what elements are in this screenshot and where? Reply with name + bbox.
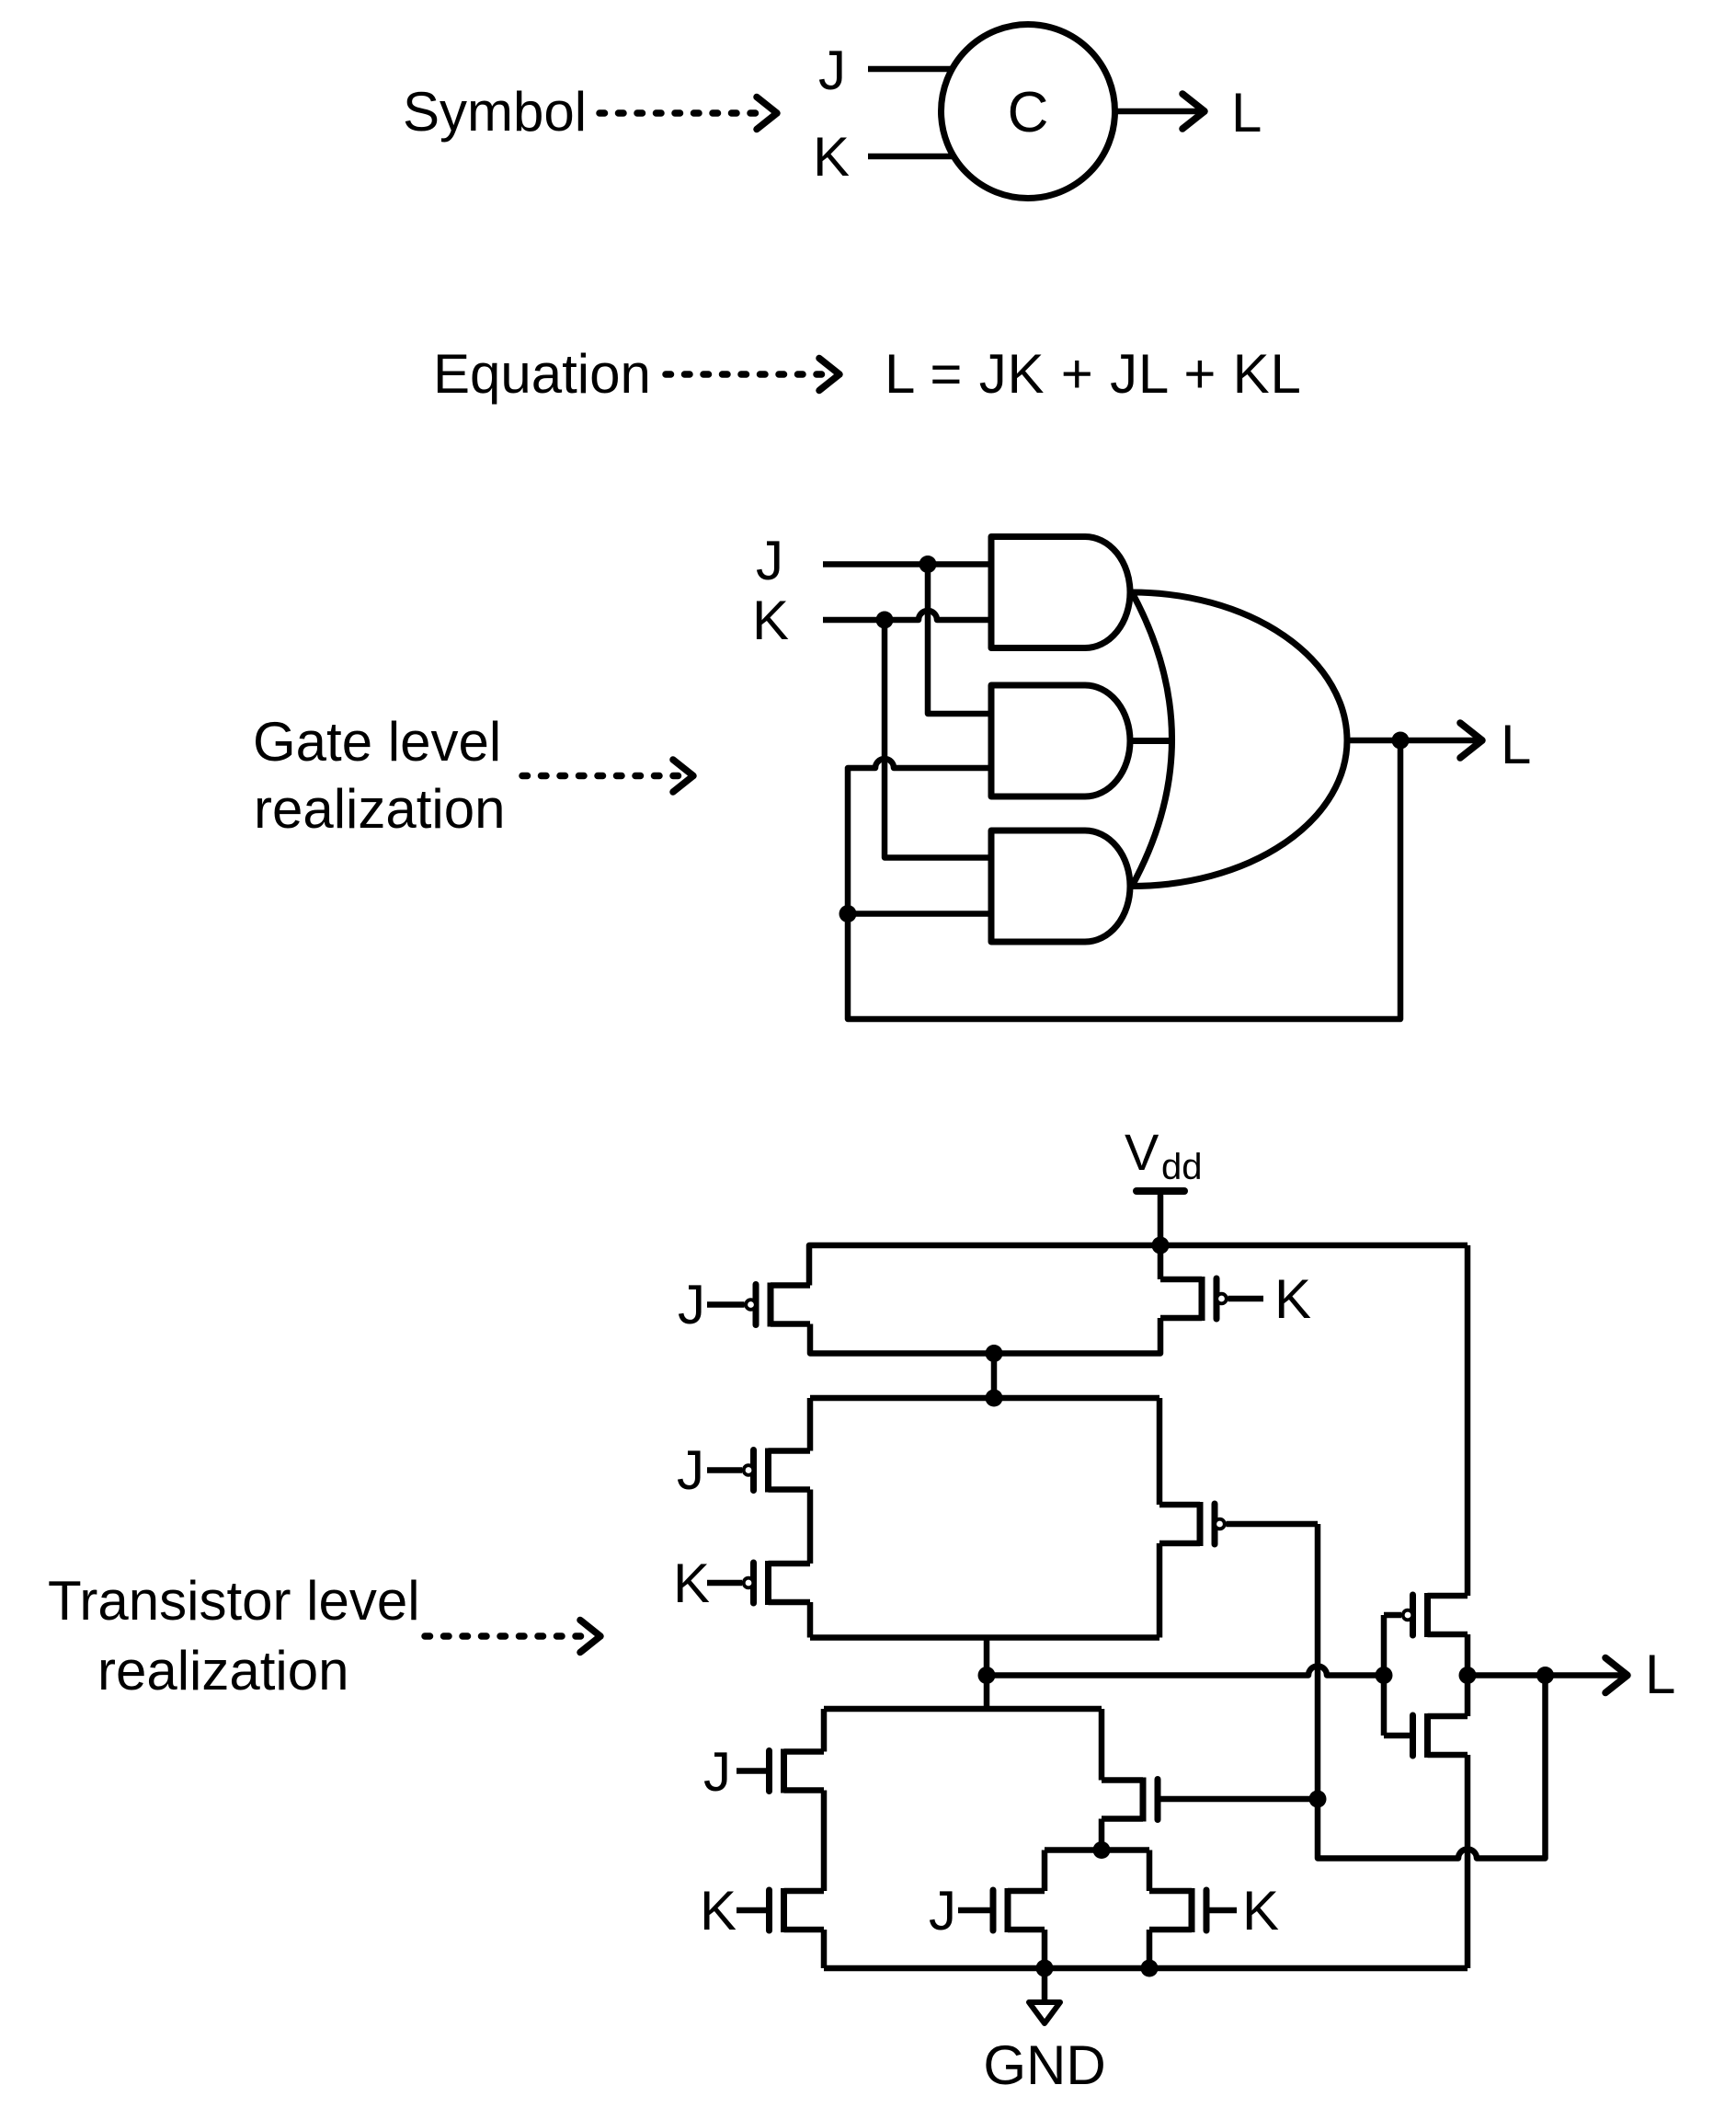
wire output arrow to L (symbol) bbox=[1114, 109, 1205, 115]
node J junction bbox=[919, 556, 937, 573]
wire middle block bottom edge bbox=[810, 1634, 1159, 1641]
transistor Q4 (PMOS, gate K, middle block) bbox=[765, 1561, 771, 1605]
svg-text:Gate level: Gate level bbox=[253, 711, 501, 773]
wire middle block left edge segments bbox=[807, 1398, 814, 1451]
svg-text:J: J bbox=[678, 1274, 705, 1335]
wire K input line with hop over J branch bbox=[823, 611, 991, 620]
wire inner K source step bbox=[1147, 1930, 1153, 1968]
wire Q2 source step bbox=[1158, 1245, 1164, 1279]
wire lower block left edge segments bbox=[821, 1709, 828, 1752]
AND gate U4 (KL) bbox=[991, 831, 1130, 942]
node inverter input junction bbox=[1376, 1667, 1393, 1684]
svg-text:Symbol: Symbol bbox=[403, 81, 587, 143]
svg-text:dd: dd bbox=[1161, 1147, 1203, 1187]
node feedback junction to AND3 bbox=[839, 905, 857, 922]
wire J input line bbox=[823, 561, 991, 567]
wire inverter gate vertical bbox=[1381, 1615, 1388, 1736]
wire lower block top edge bbox=[824, 1706, 1102, 1713]
node inverter output junction bbox=[1459, 1667, 1477, 1684]
wire GND rail bbox=[824, 1965, 1468, 1972]
transistor Q8 (NMOS, gate J, lower block) bbox=[781, 1749, 787, 1793]
C-element symbol U1 (circle C) bbox=[942, 25, 1115, 199]
svg-text:C: C bbox=[1008, 81, 1049, 144]
wire J input to C symbol bbox=[868, 66, 952, 73]
wire OR output to L bbox=[1347, 738, 1482, 744]
wire Q5 gate lead bbox=[1227, 1521, 1319, 1528]
dashed arrow (Equation) bbox=[666, 371, 827, 378]
svg-text:K: K bbox=[813, 126, 850, 188]
transistor Q11 (NMOS, gate J, inner pair) bbox=[1005, 1888, 1011, 1932]
transistor Q6 (inverter PMOS) bbox=[1424, 1593, 1431, 1637]
svg-text:J: J bbox=[818, 40, 846, 101]
dashed arrow (Symbol) bbox=[600, 109, 764, 117]
svg-text:L = JK + JL + KL: L = JK + JL + KL bbox=[885, 343, 1302, 405]
wire node X vertical bbox=[984, 1638, 990, 1710]
svg-text:K: K bbox=[1242, 1880, 1279, 1942]
wire L feedback loop bbox=[848, 740, 1400, 1019]
svg-text:J: J bbox=[929, 1880, 956, 1942]
wire inverter NMOS source to GND rail bbox=[1465, 1755, 1471, 1968]
node L output junction (gate level) bbox=[1392, 732, 1410, 750]
wire top pair drain rail bbox=[810, 1318, 1160, 1354]
wire Vdd top rail with Q1 source step bbox=[809, 1245, 1468, 1286]
transistor Q12 (NMOS, gate K, inner pair) bbox=[1189, 1888, 1195, 1932]
transistor Q5 (PMOS feedback, middle block) bbox=[1197, 1502, 1204, 1546]
wire K input to C symbol bbox=[868, 154, 952, 160]
transistor Q9 (NMOS feedback, lower block) bbox=[1140, 1778, 1147, 1822]
svg-text:K: K bbox=[1274, 1268, 1311, 1330]
svg-text:Equation: Equation bbox=[433, 343, 651, 405]
AND gate U3 (JL) bbox=[991, 685, 1130, 796]
svg-text:K: K bbox=[673, 1552, 710, 1614]
ground GND symbol bbox=[1042, 1968, 1048, 2002]
svg-text:J: J bbox=[703, 1741, 731, 1803]
wire AND2 output to OR bbox=[1130, 738, 1173, 744]
svg-text:realization: realization bbox=[97, 1640, 349, 1701]
Vdd supply symbol bbox=[1136, 1187, 1184, 1195]
dashed arrow (gate level) bbox=[522, 773, 680, 780]
svg-text:L: L bbox=[1231, 82, 1262, 143]
wire lower block right edge segments bbox=[1099, 1709, 1105, 1781]
wire node A vertical link bbox=[991, 1354, 998, 1399]
svg-text:L: L bbox=[1501, 714, 1531, 775]
wire J branch to AND2 top input bbox=[928, 565, 991, 715]
wire middle block top edge bbox=[810, 1395, 1159, 1402]
svg-text:V: V bbox=[1125, 1123, 1159, 1181]
node inner pair top junction bbox=[1093, 1841, 1111, 1859]
node A junction on middle block bbox=[986, 1390, 1003, 1407]
wire node X to inverter input with hop bbox=[987, 1667, 1384, 1676]
node top pair drain junction bbox=[986, 1345, 1003, 1362]
wire inner J source step bbox=[1042, 1930, 1048, 1968]
wire L output line bbox=[1468, 1672, 1627, 1678]
transistor Q10 (NMOS, gate K, lower block) bbox=[781, 1888, 787, 1932]
wire Q9 gate lead bbox=[1160, 1796, 1319, 1803]
node GND tap junction bbox=[1036, 1960, 1054, 1977]
svg-text:K: K bbox=[700, 1880, 737, 1942]
wire inner pair top link bbox=[1045, 1847, 1149, 1853]
node L branch junction bbox=[1536, 1667, 1554, 1684]
node Vdd rail junction bbox=[1152, 1237, 1170, 1254]
svg-text:L: L bbox=[1645, 1644, 1675, 1705]
transistor Q1 (PMOS, gate J, top pair) bbox=[768, 1283, 774, 1327]
svg-text:GND: GND bbox=[983, 2034, 1105, 2096]
wire inner J drain step bbox=[1042, 1850, 1048, 1892]
wire Vdd branch to inverter PMOS bbox=[1465, 1245, 1471, 1596]
node X junction bbox=[978, 1667, 996, 1684]
wire middle block right edge segments bbox=[1157, 1398, 1163, 1505]
dashed arrow (transistor level) bbox=[425, 1633, 588, 1640]
node K junction bbox=[876, 612, 894, 629]
svg-text:K: K bbox=[752, 590, 789, 651]
transistor Q2 (PMOS, gate K, top pair) bbox=[1199, 1277, 1205, 1321]
wire inverter output vertical bbox=[1465, 1634, 1471, 1716]
wire inner K drain step bbox=[1147, 1850, 1153, 1892]
OR gate U5 bbox=[1132, 592, 1172, 887]
node feedback gate junction bbox=[1309, 1791, 1327, 1808]
svg-text:J: J bbox=[677, 1439, 704, 1501]
wire L feedback to gates with hop bbox=[1318, 1524, 1546, 1859]
svg-text:J: J bbox=[756, 530, 783, 591]
transistor Q7 (inverter NMOS) bbox=[1424, 1713, 1431, 1758]
svg-text:Transistor level: Transistor level bbox=[48, 1570, 420, 1632]
AND gate U2 (JK) bbox=[991, 537, 1130, 648]
transistor Q3 (PMOS, gate J, middle block) bbox=[765, 1449, 771, 1493]
wire K branch to AND3 top input bbox=[885, 620, 991, 858]
node inner K source junction bbox=[1141, 1960, 1159, 1977]
wire feedback to AND3 lower input bbox=[848, 911, 991, 917]
svg-text:realization: realization bbox=[254, 778, 506, 840]
